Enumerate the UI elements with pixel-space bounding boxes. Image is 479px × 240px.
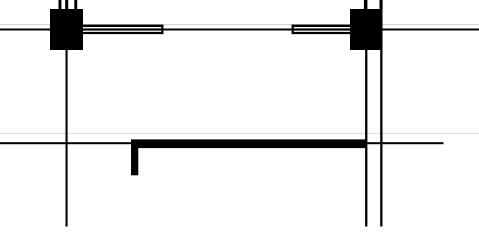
wall W2 bottom face line bbox=[292, 32, 350, 34]
wall axis line above column C1, centre bbox=[65, 0, 68, 10]
faint ghost line across sheet, middle bbox=[0, 133, 479, 134]
grid axis line 2 (vertical, right inner) bbox=[365, 0, 367, 227]
beam (thick horizontal bar) bbox=[131, 139, 366, 148]
wall face line above column C1, right bbox=[74, 0, 77, 10]
wall W2 top face line bbox=[292, 25, 350, 27]
column C1 (solid, top-left) bbox=[50, 9, 83, 50]
grid axis line B (horizontal, middle) bbox=[0, 142, 444, 144]
wall W2 axis line bbox=[292, 28, 350, 30]
wall W2 end cap bbox=[292, 25, 294, 34]
grid axis line 3 (vertical, right outer) bbox=[380, 0, 382, 227]
wall W1 end cap bbox=[161, 25, 163, 34]
column C2 (solid, top-right) bbox=[350, 9, 382, 50]
grid axis line A (horizontal, top) bbox=[0, 29, 479, 31]
wall W1 axis line bbox=[83, 28, 163, 30]
grid axis line 1 (vertical, left) bbox=[66, 0, 68, 227]
wall face line above column C1, left bbox=[59, 0, 62, 10]
faint ghost line across sheet, upper bbox=[0, 24, 479, 25]
wall W1 bottom face line bbox=[83, 32, 163, 34]
beam end stub (vertical, down-left) bbox=[131, 148, 138, 175]
wall W1 top face line bbox=[83, 25, 163, 27]
wall face line above column C2, left bbox=[364, 0, 367, 10]
wall face line above column C2, right bbox=[380, 0, 383, 10]
